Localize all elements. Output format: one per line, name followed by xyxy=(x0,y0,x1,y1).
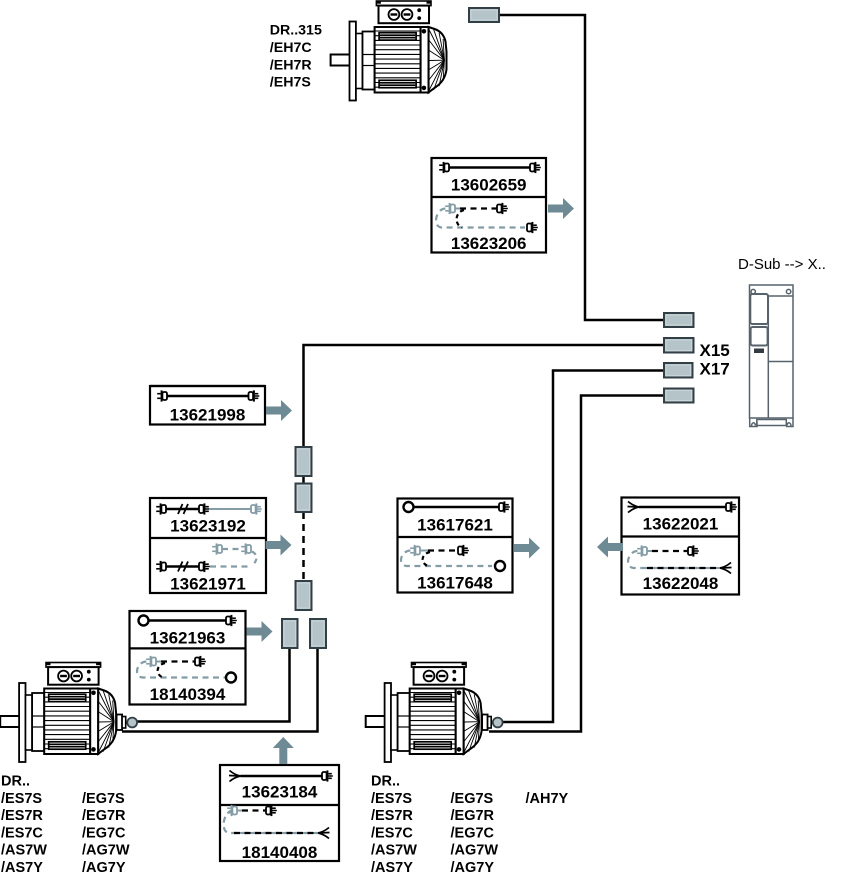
svg-text:/EH7R: /EH7R xyxy=(270,57,312,73)
svg-text:13621971: 13621971 xyxy=(170,575,246,594)
svg-text:/EH7S: /EH7S xyxy=(270,75,311,91)
svg-text:13617621: 13617621 xyxy=(417,516,493,535)
svg-text:/AG7W: /AG7W xyxy=(451,843,499,859)
svg-text:/AG7W: /AG7W xyxy=(82,843,130,859)
svg-text:/AS7Y: /AS7Y xyxy=(1,860,43,876)
svg-text:/EG7R: /EG7R xyxy=(82,808,126,824)
svg-text:/AG7Y: /AG7Y xyxy=(451,860,495,876)
svg-text:/EG7C: /EG7C xyxy=(82,825,126,841)
svg-text:/EH7C: /EH7C xyxy=(270,40,312,56)
svg-text:13622021: 13622021 xyxy=(643,515,719,534)
svg-text:/AS7Y: /AS7Y xyxy=(371,860,413,876)
svg-text:DR..: DR.. xyxy=(371,774,400,790)
svg-text:18140408: 18140408 xyxy=(242,843,318,862)
svg-text:/AS7W: /AS7W xyxy=(371,843,417,859)
svg-text:/AS7W: /AS7W xyxy=(1,843,47,859)
svg-text:13623206: 13623206 xyxy=(451,234,527,253)
svg-text:/ES7C: /ES7C xyxy=(1,825,43,841)
svg-text:DR..: DR.. xyxy=(1,774,30,790)
svg-text:/ES7S: /ES7S xyxy=(1,791,42,807)
svg-text:/ES7C: /ES7C xyxy=(371,825,413,841)
svg-text:X17: X17 xyxy=(700,360,730,379)
svg-text:13622048: 13622048 xyxy=(643,574,719,593)
svg-text:X15: X15 xyxy=(700,341,730,360)
svg-text:13623192: 13623192 xyxy=(170,517,246,536)
svg-text:13621998: 13621998 xyxy=(170,406,246,425)
svg-text:D-Sub --> X..: D-Sub --> X.. xyxy=(738,256,826,273)
svg-text:13602659: 13602659 xyxy=(451,176,527,195)
svg-text:18140394: 18140394 xyxy=(150,685,226,704)
svg-text:13617648: 13617648 xyxy=(417,574,493,593)
svg-text:/EG7C: /EG7C xyxy=(451,825,495,841)
svg-text:/AH7Y: /AH7Y xyxy=(526,791,569,807)
svg-text:DR..315: DR..315 xyxy=(270,23,322,39)
svg-text:/EG7R: /EG7R xyxy=(451,808,495,824)
svg-text:/ES7R: /ES7R xyxy=(371,808,413,824)
svg-text:/EG7S: /EG7S xyxy=(82,791,125,807)
svg-text:/AG7Y: /AG7Y xyxy=(82,860,126,876)
svg-text:/EG7S: /EG7S xyxy=(451,791,494,807)
svg-text:13623184: 13623184 xyxy=(242,783,318,802)
svg-text:/ES7R: /ES7R xyxy=(1,808,43,824)
svg-text:13621963: 13621963 xyxy=(150,629,226,648)
svg-text:/ES7S: /ES7S xyxy=(371,791,412,807)
